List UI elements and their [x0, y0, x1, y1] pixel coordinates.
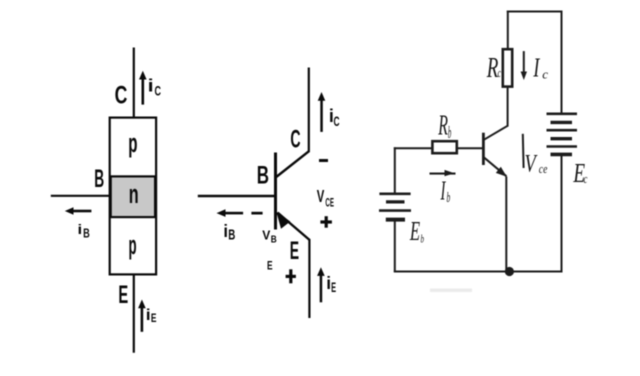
svg-text:i: i	[78, 222, 83, 237]
svg-text:c: c	[542, 66, 548, 81]
base bar of transistor (middle)	[274, 153, 277, 230]
svg-text:C: C	[290, 127, 300, 154]
wire emitter vertical (middle)	[308, 239, 310, 318]
wire bottom return (Eb to Ec)	[394, 271, 563, 273]
svg-text:E: E	[118, 281, 128, 309]
wire base lead (middle)	[198, 195, 277, 197]
svg-text:b: b	[447, 188, 451, 206]
faint scan smudge below bottom wire	[430, 289, 472, 293]
arrow Ic current	[521, 51, 527, 80]
svg-text:E: E	[409, 216, 420, 246]
transistor Q1 base bar	[482, 133, 485, 165]
svg-text:E: E	[290, 238, 299, 265]
node junction dot (emitter to ground rail)	[505, 267, 514, 276]
wire base lead (left diagram)	[51, 195, 110, 197]
plus sign near VCE (middle)	[320, 216, 332, 228]
svg-text:i: i	[146, 306, 151, 324]
svg-text:i: i	[148, 76, 154, 96]
wire base segment Eb to Rb	[394, 147, 433, 149]
battery Ec	[547, 114, 578, 155]
wire left side (base line down to Eb)	[394, 147, 396, 194]
svg-text:C: C	[115, 80, 128, 109]
svg-text:I: I	[440, 176, 447, 206]
svg-text:i: i	[326, 273, 331, 293]
wire right side top (to Ec)	[561, 11, 563, 114]
svg-text:C: C	[155, 83, 162, 98]
svg-text:E: E	[151, 313, 157, 326]
resistor Rc	[503, 49, 512, 86]
arrow iC current (left diagram)	[139, 71, 147, 105]
wire collector diagonal (middle)	[276, 151, 309, 177]
wire Q1 emitter lead to bottom node	[505, 177, 507, 272]
emitter arrowhead (middle PNP, points to base)	[276, 212, 290, 229]
arrow iE current (middle)	[317, 267, 325, 302]
svg-text:E: E	[267, 260, 273, 273]
svg-text:ce: ce	[539, 163, 548, 177]
minus sign near collector (middle)	[319, 159, 328, 162]
svg-text:CE: CE	[325, 196, 333, 210]
svg-text:I: I	[533, 53, 541, 82]
wire collector lead (left diagram)	[133, 48, 135, 118]
wire base segment Rb to Q1	[456, 147, 482, 149]
wire Rc top lead	[507, 11, 509, 50]
svg-text:V: V	[262, 228, 271, 242]
n region (gray)	[111, 176, 155, 217]
wire collector vertical (middle)	[308, 68, 310, 153]
svg-text:V: V	[317, 186, 325, 206]
plus sign near emitter (middle)	[286, 269, 296, 283]
svg-text:R: R	[486, 53, 499, 83]
arrow iB dashed current (middle)	[217, 209, 263, 217]
arrow iC current (middle)	[318, 92, 326, 132]
svg-text:c: c	[584, 172, 588, 186]
svg-text:R: R	[437, 110, 448, 141]
wire emitter diagonal (middle)	[278, 213, 310, 241]
arrow Vce reference bar	[522, 134, 525, 168]
transistor Q1 emitter diagonal	[484, 157, 507, 176]
transistor Q1 collector diagonal	[484, 126, 508, 140]
svg-text:B: B	[83, 227, 90, 241]
svg-text:B: B	[94, 166, 104, 193]
wire top (Rc branch to Ec branch)	[507, 11, 563, 13]
svg-text:B: B	[271, 234, 277, 245]
svg-text:i: i	[223, 220, 228, 241]
wire emitter lead (left diagram)	[133, 275, 135, 353]
arrow iB current (left diagram)	[65, 207, 92, 215]
svg-text:E: E	[331, 281, 336, 296]
wire below Ec	[561, 154, 563, 272]
wire below Eb	[394, 220, 396, 272]
arrow Ib current	[430, 170, 456, 176]
transistor body outline p-n-p box	[110, 118, 156, 275]
svg-text:p: p	[129, 230, 137, 260]
wire Q1 collector lead to Rc	[507, 87, 509, 127]
svg-text:C: C	[334, 115, 341, 130]
svg-text:b: b	[448, 122, 452, 142]
svg-text:p: p	[128, 128, 137, 159]
battery Eb	[379, 194, 411, 220]
transistor Q1 emitter arrowhead	[496, 167, 507, 177]
svg-text:c: c	[498, 66, 502, 81]
svg-text:V: V	[525, 149, 538, 177]
svg-text:n: n	[129, 179, 139, 209]
arrow iE current (left diagram)	[138, 300, 146, 332]
svg-text:b: b	[421, 233, 425, 246]
resistor Rb	[432, 141, 456, 153]
svg-text:B: B	[257, 161, 269, 189]
svg-text:B: B	[228, 227, 235, 244]
